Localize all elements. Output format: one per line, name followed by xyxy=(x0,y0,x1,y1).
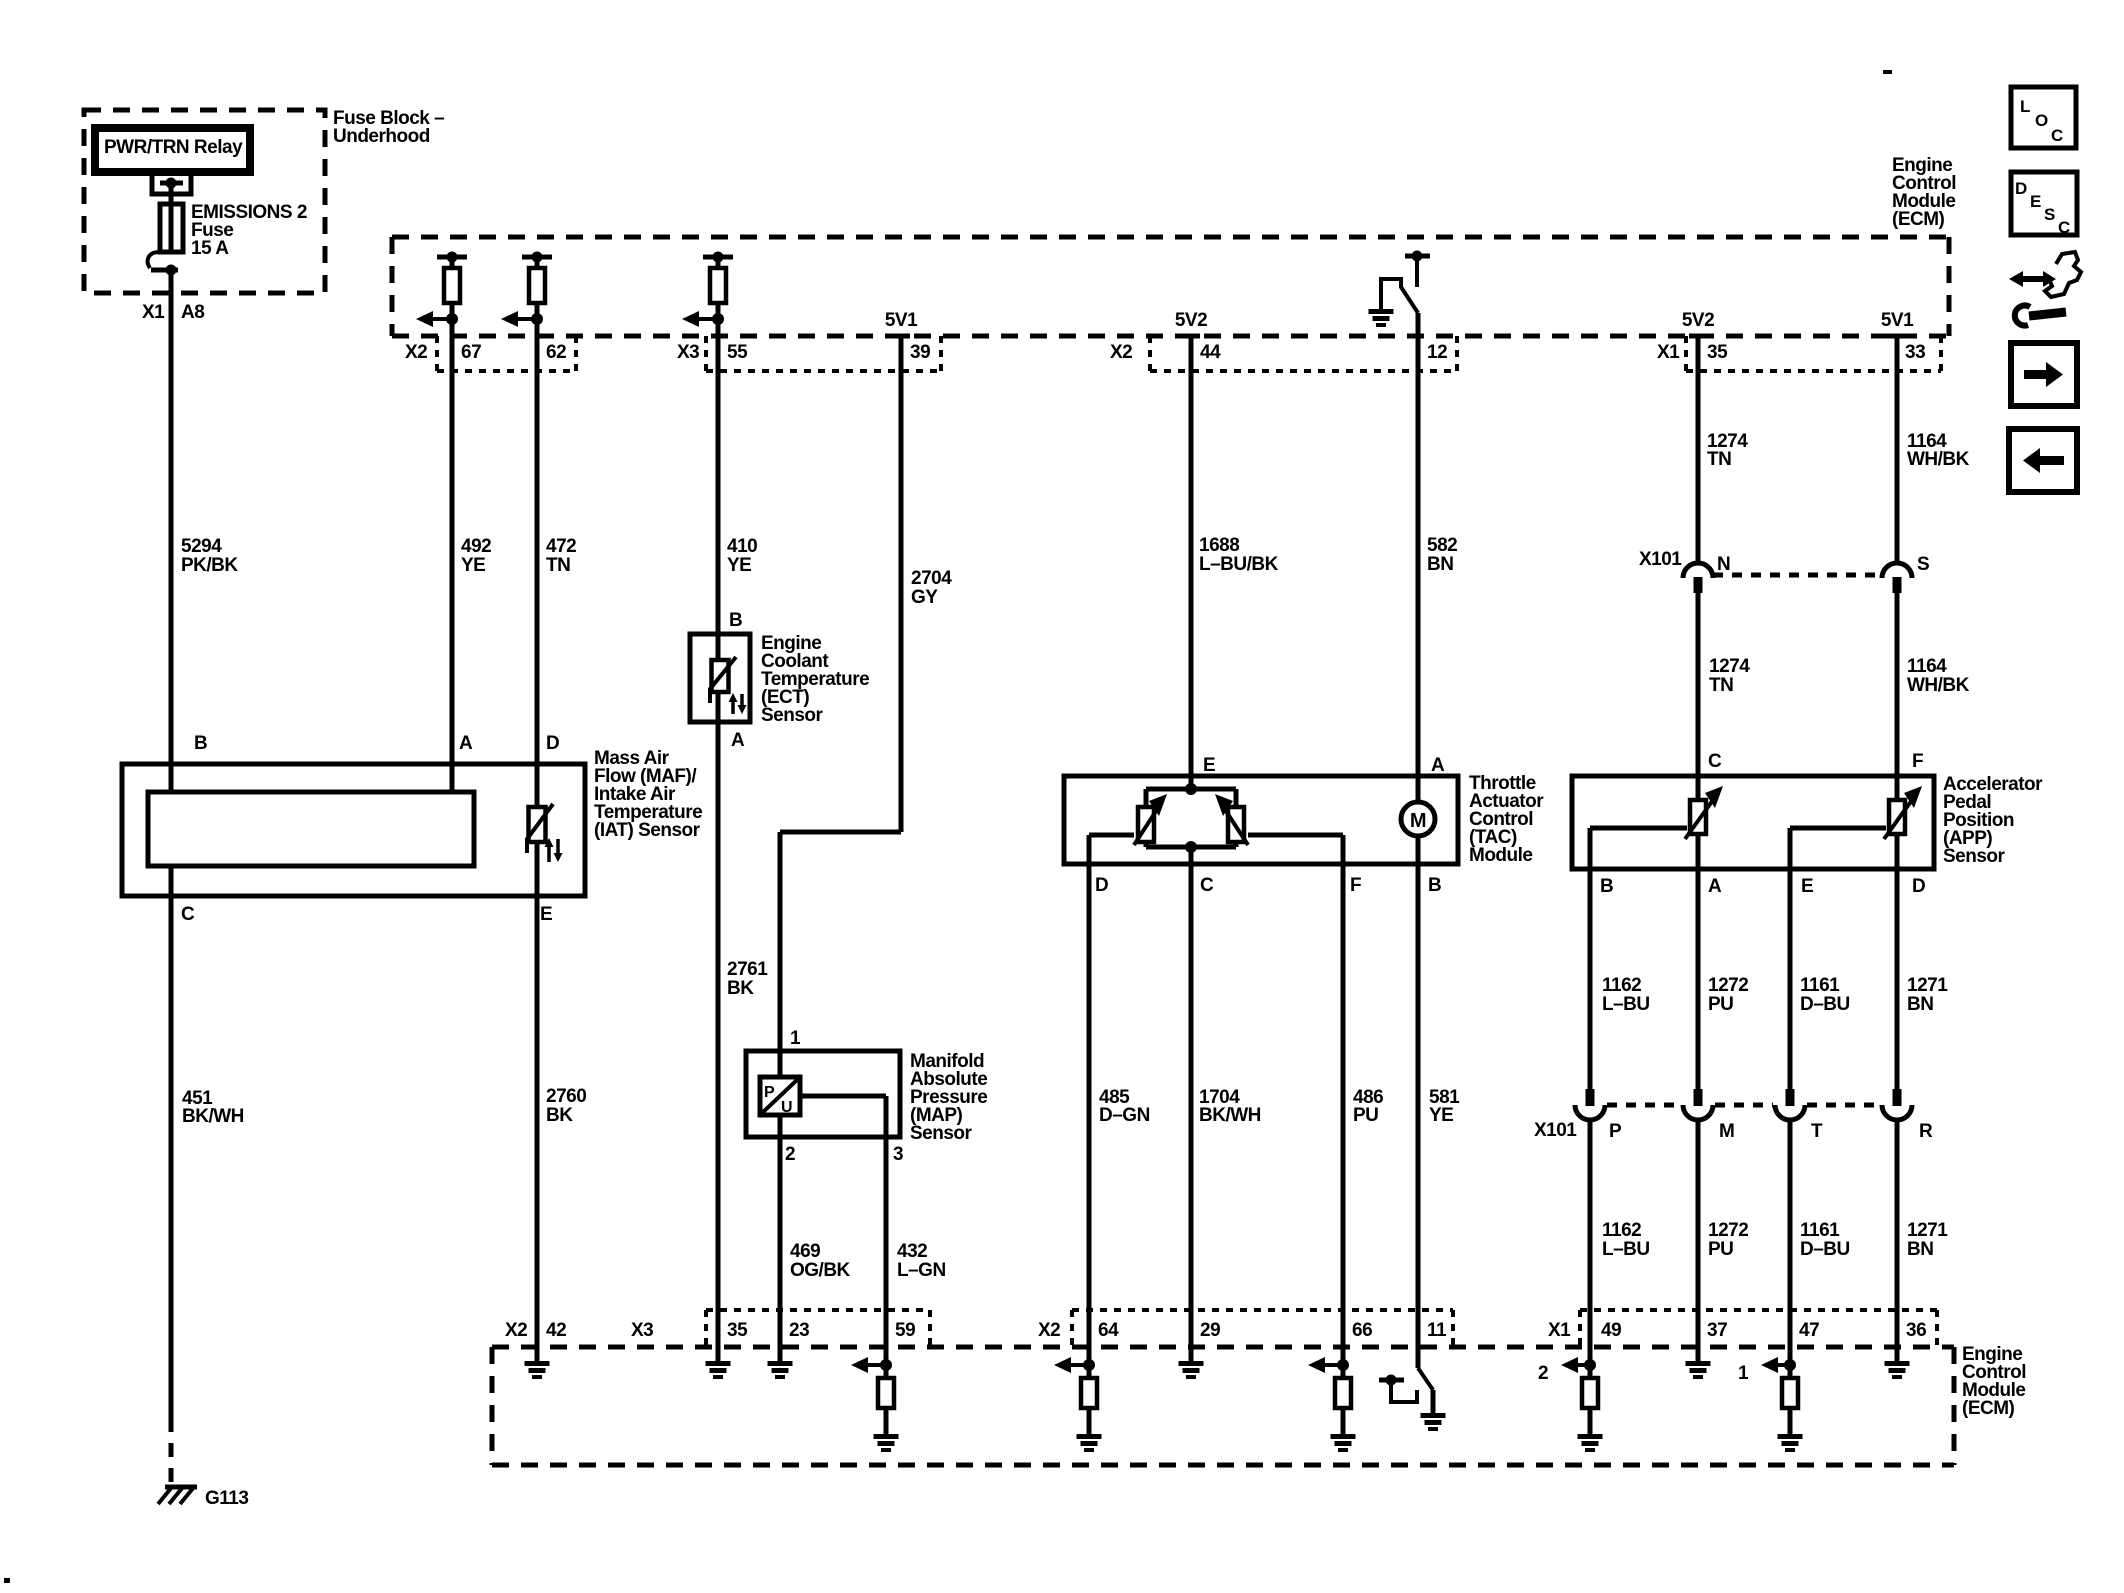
svg-text:YE: YE xyxy=(1429,1105,1453,1126)
svg-text:X2: X2 xyxy=(1038,1320,1060,1341)
svg-text:X2: X2 xyxy=(405,342,427,363)
wire 581 YE TAC B to pin 11 xyxy=(1416,864,1421,1347)
svg-text:47: 47 xyxy=(1799,1320,1819,1341)
svg-text:B: B xyxy=(194,733,207,754)
connector X1 pin box (35,33) xyxy=(1684,336,1688,371)
ground pin 23 xyxy=(778,1347,783,1361)
svg-text:66: 66 xyxy=(1352,1320,1372,1341)
svg-text:BK/WH: BK/WH xyxy=(1199,1105,1261,1126)
svg-text:1274: 1274 xyxy=(1709,656,1750,677)
connector X3 pin box bottom (35,23,59) xyxy=(704,1310,708,1347)
connector X101 pin M xyxy=(1694,1089,1703,1106)
svg-text:B: B xyxy=(1428,875,1441,896)
svg-text:C: C xyxy=(1708,751,1722,772)
ground pin 29 xyxy=(1189,1347,1194,1361)
node relay output xyxy=(160,181,183,186)
connector X101 pin N xyxy=(1683,563,1713,578)
TAC module box xyxy=(1064,776,1458,864)
svg-text:64: 64 xyxy=(1098,1320,1119,1341)
svg-text:M: M xyxy=(1410,810,1426,832)
connector X2 pin box bottom (64,29,66,11) xyxy=(1070,1310,1074,1347)
svg-text:BN: BN xyxy=(1907,1239,1933,1260)
svg-text:D–BU: D–BU xyxy=(1800,994,1850,1015)
svg-text:44: 44 xyxy=(1200,342,1221,363)
wire 582 BN pin12 to TAC A xyxy=(1416,313,1421,802)
svg-text:62: 62 xyxy=(546,342,566,363)
svg-text:GY: GY xyxy=(911,587,938,608)
svg-text:E: E xyxy=(540,904,552,925)
svg-text:E: E xyxy=(2030,192,2041,211)
pin 44 stub 5V2 xyxy=(1182,334,1200,339)
wire IAT to pin E xyxy=(535,842,540,896)
svg-text:39: 39 xyxy=(910,342,930,363)
svg-text:L–BU: L–BU xyxy=(1602,1239,1650,1260)
svg-text:A: A xyxy=(459,733,473,754)
connector X2 pin box (44,12) xyxy=(1148,336,1152,371)
svg-text:X101: X101 xyxy=(1639,549,1682,570)
svg-text:49: 49 xyxy=(1601,1320,1621,1341)
svg-text:S: S xyxy=(1917,554,1929,575)
svg-text:472: 472 xyxy=(546,536,576,557)
svg-text:2704: 2704 xyxy=(911,568,952,589)
scan mark bottom left xyxy=(4,1578,10,1583)
wire APP A internal xyxy=(1696,834,1701,869)
icon arrow right xyxy=(2011,343,2077,406)
wire 485 D-GN TAC D to pin 64 xyxy=(1087,864,1092,1347)
svg-text:E: E xyxy=(1203,755,1215,776)
svg-text:D–GN: D–GN xyxy=(1099,1105,1150,1126)
ECM internal resistor pin 59 xyxy=(884,1347,889,1378)
APP potentiometer 1 xyxy=(1690,800,1706,834)
TAC bottom bracket node xyxy=(1144,842,1149,847)
ECM internal resistor pin 66 xyxy=(1341,1347,1346,1378)
TAC wiper D xyxy=(1089,833,1134,838)
wire 1704 BK/WH TAC C to pin 29 xyxy=(1189,864,1194,1347)
svg-text:29: 29 xyxy=(1200,1320,1220,1341)
svg-text:L–BU: L–BU xyxy=(1602,994,1650,1015)
wire APP D internal xyxy=(1895,834,1900,869)
svg-text:C: C xyxy=(181,904,195,925)
ECM internal resistor pin 47 xyxy=(1788,1347,1793,1378)
svg-text:D: D xyxy=(1095,875,1108,896)
MAP P/U transducer xyxy=(760,1077,800,1115)
svg-text:T: T xyxy=(1811,1121,1823,1142)
svg-text:WH/BK: WH/BK xyxy=(1907,449,1970,470)
APP wiper E xyxy=(1790,826,1886,831)
wire 1274 TN pin35 to X101 N xyxy=(1696,336,1701,563)
svg-text:2: 2 xyxy=(785,1144,795,1165)
svg-text:5V2: 5V2 xyxy=(1175,310,1207,331)
svg-text:432: 432 xyxy=(897,1241,927,1262)
icon LOC xyxy=(2011,87,2076,148)
wire 1162 L-BU APP B to X101 P xyxy=(1588,869,1593,1089)
svg-text:E: E xyxy=(1801,876,1813,897)
ECM internal ground switch pin 12 xyxy=(1405,254,1430,259)
wire 1274 TN X101 to APP C xyxy=(1696,593,1701,800)
svg-text:F: F xyxy=(1912,751,1923,772)
svg-text:469: 469 xyxy=(790,1241,820,1262)
svg-text:1164: 1164 xyxy=(1907,656,1947,677)
wire 5294 PK/BK fuse to MAF B xyxy=(169,273,174,792)
wire 472 TN pin62 to MAF D xyxy=(535,336,540,807)
chassis ground G113 xyxy=(165,1485,197,1490)
ECM top box (Engine Control Module) xyxy=(392,235,1949,240)
svg-text:B: B xyxy=(1600,876,1613,897)
wire 486 PU TAC F to pin 66 xyxy=(1341,864,1346,1347)
svg-text:1272: 1272 xyxy=(1708,975,1748,996)
fuse EMISSIONS 2 15A xyxy=(160,204,183,252)
wire 1162 L-BU X101 to pin 49 xyxy=(1588,1121,1593,1347)
connector X101 pin S xyxy=(1882,563,1912,578)
svg-text:X3: X3 xyxy=(631,1320,653,1341)
svg-text:37: 37 xyxy=(1707,1320,1727,1341)
wire 1164 WH/BK pin33 to X101 S xyxy=(1895,336,1900,563)
wire 410 YE pin55 to ECT B xyxy=(716,336,721,660)
wire ECT internal xyxy=(716,692,721,722)
svg-text:1271: 1271 xyxy=(1907,975,1948,996)
wire MAP internal pin3 xyxy=(800,1094,886,1099)
IAT thermistor xyxy=(529,807,546,842)
connector X1 pin box bottom (49,37,47,36) xyxy=(1578,1310,1582,1347)
svg-text:410: 410 xyxy=(727,536,757,557)
scan mark top right xyxy=(1883,70,1892,74)
MAP sensor box xyxy=(746,1051,900,1137)
wire 469 OG/BK MAP 2 to pin 23 xyxy=(778,1137,783,1347)
X101 dashed link top xyxy=(1713,573,1882,578)
svg-text:L–GN: L–GN xyxy=(897,1260,946,1281)
connector X101 pin R xyxy=(1893,1089,1902,1106)
svg-text:YE: YE xyxy=(461,555,485,576)
icon arrow left xyxy=(2009,429,2077,492)
svg-text:12: 12 xyxy=(1427,342,1447,363)
svg-text:BK/WH: BK/WH xyxy=(182,1106,244,1127)
svg-text:P: P xyxy=(1609,1121,1622,1142)
svg-text:X101: X101 xyxy=(1534,1120,1577,1141)
svg-text:BN: BN xyxy=(1427,554,1453,575)
wire MAF C internal xyxy=(169,866,174,896)
svg-text:OG/BK: OG/BK xyxy=(790,1260,851,1281)
svg-text:1162: 1162 xyxy=(1602,1220,1641,1241)
TAC throttle position sensor 2 xyxy=(1228,807,1244,842)
wire 1272 PU X101 to pin 37 xyxy=(1696,1121,1701,1347)
svg-text:33: 33 xyxy=(1905,342,1925,363)
TAC throttle position sensor 1 xyxy=(1138,807,1154,842)
ground pin 35 xyxy=(716,1347,721,1361)
connector X101 pin T xyxy=(1786,1089,1795,1106)
ECM internal resistor pin 55 xyxy=(703,255,733,260)
svg-text:X1: X1 xyxy=(1657,342,1680,363)
svg-text:X3: X3 xyxy=(677,342,699,363)
svg-text:A: A xyxy=(1708,876,1722,897)
svg-text:D–BU: D–BU xyxy=(1800,1239,1850,1260)
wire 1272 PU APP A to X101 M xyxy=(1696,869,1701,1089)
wire 1271 BN APP D to X101 R xyxy=(1895,869,1900,1089)
svg-text:(ECM): (ECM) xyxy=(1892,209,1945,230)
svg-text:WH/BK: WH/BK xyxy=(1907,675,1970,696)
ECT sensor box xyxy=(690,634,750,722)
APP wiper B xyxy=(1590,826,1687,831)
svg-text:1271: 1271 xyxy=(1907,1220,1948,1241)
svg-text:582: 582 xyxy=(1427,535,1457,556)
svg-text:35: 35 xyxy=(727,1320,748,1341)
svg-text:1162: 1162 xyxy=(1602,975,1641,996)
svg-text:BK: BK xyxy=(546,1105,573,1126)
icon DESC xyxy=(2011,172,2077,235)
fuse block underhood dashed box xyxy=(84,110,325,293)
svg-text:5294: 5294 xyxy=(181,536,222,557)
pin 39 stub 5V1 xyxy=(892,334,910,339)
svg-text:42: 42 xyxy=(546,1320,566,1341)
wire 432 L-GN MAP 3 to pin 59 xyxy=(884,1137,889,1347)
ECM internal resistor pin 62 xyxy=(522,255,552,260)
svg-text:BN: BN xyxy=(1907,994,1933,1015)
svg-text:35: 35 xyxy=(1707,342,1728,363)
connector X2 pin box (67,62) xyxy=(435,336,439,371)
ECM internal resistor pin 67 xyxy=(437,255,467,260)
svg-text:(ECM): (ECM) xyxy=(1962,1398,2015,1419)
svg-text:36: 36 xyxy=(1906,1320,1926,1341)
svg-text:PWR/TRN Relay: PWR/TRN Relay xyxy=(104,137,243,158)
svg-text:23: 23 xyxy=(789,1320,809,1341)
svg-text:1272: 1272 xyxy=(1708,1220,1748,1241)
relay PWR/TRN xyxy=(95,128,250,172)
ground pin 37 xyxy=(1696,1347,1701,1361)
svg-text:D: D xyxy=(546,733,559,754)
svg-text:R: R xyxy=(1919,1121,1933,1142)
svg-text:D: D xyxy=(1912,876,1925,897)
svg-text:2760: 2760 xyxy=(546,1086,586,1107)
wire 492 YE pin67 to MAF A xyxy=(450,336,455,792)
wire 1161 D-BU APP E to X101 T xyxy=(1788,869,1793,1089)
svg-text:YE: YE xyxy=(727,555,751,576)
svg-text:492: 492 xyxy=(461,536,491,557)
MAF inner element xyxy=(148,792,474,866)
wire TAC C internal xyxy=(1189,847,1194,864)
fuse lower contact xyxy=(148,252,159,268)
ground pin 36 xyxy=(1895,1347,1900,1361)
svg-text:TN: TN xyxy=(1707,449,1731,470)
X101 dashed links bottom xyxy=(1607,1103,1681,1108)
svg-text:11: 11 xyxy=(1427,1320,1447,1341)
svg-text:A8: A8 xyxy=(181,302,204,323)
svg-text:C: C xyxy=(2051,126,2063,145)
svg-text:L–BU/BK: L–BU/BK xyxy=(1199,554,1279,575)
wire 1688 L-BU/BK pin44 to TAC E xyxy=(1189,336,1194,789)
wire APP F internal xyxy=(1895,776,1900,800)
svg-text:2: 2 xyxy=(1538,1363,1548,1384)
wire 1161 D-BU X101 to pin 47 xyxy=(1788,1121,1793,1347)
svg-text:N: N xyxy=(1717,554,1730,575)
ground switch pin 11 xyxy=(1421,1413,1446,1418)
svg-text:M: M xyxy=(1719,1121,1734,1142)
svg-text:67: 67 xyxy=(461,342,481,363)
svg-text:U: U xyxy=(781,1099,792,1116)
svg-text:X1: X1 xyxy=(142,302,165,323)
ECM bottom box xyxy=(492,1345,1954,1350)
svg-text:1161: 1161 xyxy=(1800,1220,1840,1241)
wire 1164 WH/BK X101 to APP F xyxy=(1895,593,1900,800)
svg-text:D: D xyxy=(2015,179,2027,198)
relay terminal bracket xyxy=(150,176,155,196)
svg-text:X2: X2 xyxy=(1110,342,1132,363)
svg-text:O: O xyxy=(2035,111,2048,130)
svg-text:15 A: 15 A xyxy=(191,238,229,259)
svg-text:L: L xyxy=(2020,97,2030,116)
TAC top bracket node xyxy=(1146,787,1236,792)
svg-text:59: 59 xyxy=(895,1320,915,1341)
icon data link connector with wrench xyxy=(2009,271,2056,287)
svg-text:1: 1 xyxy=(1738,1363,1749,1384)
svg-text:Sensor: Sensor xyxy=(1943,846,2006,867)
APP sensor box xyxy=(1572,776,1934,869)
svg-text:X1: X1 xyxy=(1548,1320,1571,1341)
TAC motor M xyxy=(1401,802,1435,836)
svg-text:C: C xyxy=(1200,875,1214,896)
pin 35 stub 5V2 xyxy=(1689,334,1707,339)
svg-text:PU: PU xyxy=(1353,1105,1378,1126)
svg-text:TN: TN xyxy=(546,555,570,576)
wire APP C internal xyxy=(1696,776,1701,800)
wire 1271 BN X101 to pin 36 xyxy=(1895,1121,1900,1347)
svg-text:(IAT) Sensor: (IAT) Sensor xyxy=(594,820,701,841)
svg-text:5V2: 5V2 xyxy=(1682,310,1714,331)
pin 33 stub 5V1 xyxy=(1888,334,1906,339)
MAF/IAT sensor outer box xyxy=(122,764,585,896)
svg-text:5V1: 5V1 xyxy=(885,310,918,331)
svg-text:1161: 1161 xyxy=(1800,975,1840,996)
connector X3 pin box (55,39) xyxy=(704,336,708,371)
svg-text:PK/BK: PK/BK xyxy=(181,555,238,576)
svg-text:1: 1 xyxy=(790,1028,801,1049)
svg-text:S: S xyxy=(2044,205,2055,224)
ECM internal ground switch pin 11 xyxy=(1416,1347,1421,1368)
svg-text:TN: TN xyxy=(1709,675,1733,696)
svg-text:A: A xyxy=(731,730,745,751)
ECM internal resistor pin 49 xyxy=(1588,1347,1593,1378)
ground pin 42 xyxy=(535,1347,540,1361)
wire 2704 GY pin39 to MAP 1 xyxy=(899,336,904,832)
TAC wiper F xyxy=(1248,833,1343,838)
svg-text:C: C xyxy=(2058,218,2070,237)
ECT thermistor xyxy=(712,660,729,692)
connector X101 pin P xyxy=(1586,1089,1595,1106)
svg-text:G113: G113 xyxy=(205,1488,248,1509)
svg-text:5V1: 5V1 xyxy=(1881,310,1914,331)
svg-text:Module: Module xyxy=(1469,845,1533,866)
wire relay to fuse xyxy=(169,186,174,204)
svg-text:2761: 2761 xyxy=(727,959,768,980)
svg-text:P: P xyxy=(764,1084,775,1101)
svg-text:Underhood: Underhood xyxy=(333,126,430,147)
svg-text:B: B xyxy=(729,610,742,631)
wire MAP internal pin2 xyxy=(778,1115,783,1137)
wire 2760 BK MAF E to pin 42 xyxy=(535,896,540,1347)
svg-text:F: F xyxy=(1350,875,1361,896)
APP potentiometer 2 xyxy=(1889,800,1905,834)
svg-text:55: 55 xyxy=(727,342,748,363)
svg-text:X2: X2 xyxy=(505,1320,527,1341)
wire 451 BK/WH MAF C to G113 xyxy=(169,896,174,1418)
ground internal top ECM xyxy=(1369,309,1394,314)
svg-text:BK: BK xyxy=(727,978,754,999)
wire 2761 BK ECT A to pin 35 xyxy=(716,722,721,1347)
svg-text:PU: PU xyxy=(1708,994,1733,1015)
svg-text:Sensor: Sensor xyxy=(761,705,824,726)
ECM internal resistor pin 64 xyxy=(1087,1347,1092,1378)
svg-text:Sensor: Sensor xyxy=(910,1123,973,1144)
svg-text:PU: PU xyxy=(1708,1239,1733,1260)
svg-text:A: A xyxy=(1431,755,1445,776)
svg-text:3: 3 xyxy=(893,1144,903,1165)
svg-text:1688: 1688 xyxy=(1199,535,1239,556)
